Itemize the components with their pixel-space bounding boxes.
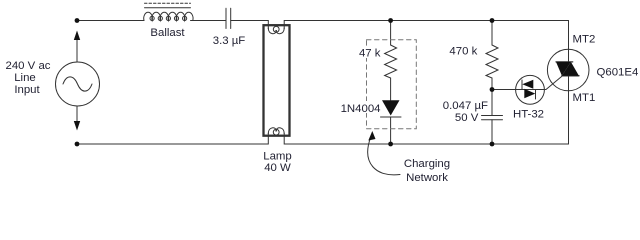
wire top rail ballast-to-capacitor	[191, 20, 227, 22]
wire triac MT1 lead to bottom rail	[568, 76, 570, 144]
svg-text:Ballast: Ballast	[150, 27, 185, 39]
svg-text:MT2: MT2	[573, 34, 596, 46]
node dot top rail at source	[75, 18, 80, 23]
svg-text:0.047 µF: 0.047 µF	[443, 100, 488, 112]
svg-text:MT1: MT1	[573, 92, 596, 104]
diac HT-32 circle	[516, 75, 545, 104]
ac source sine wave	[63, 77, 92, 91]
wire bottom rail left segment	[77, 136, 268, 144]
wire junction down to capacitor C2	[491, 90, 493, 116]
wire resistor R2 to junction	[491, 78, 493, 90]
resistor R1 47k branch top lead	[390, 21, 392, 46]
wire source top lead with up arrow	[76, 33, 78, 62]
svg-text:Charging: Charging	[404, 158, 450, 170]
charging network pointer arrow curve	[368, 137, 400, 175]
diac top triangle pointing left	[522, 80, 533, 89]
resistor R2 470k top lead	[491, 21, 493, 46]
inductor Ballast core line dashed	[145, 2, 191, 4]
lamp fluorescent tube body	[264, 25, 290, 136]
diac left bar	[521, 80, 523, 89]
lamp top filament curl	[268, 28, 276, 34]
diac bottom triangle pointing right	[524, 89, 535, 99]
inductor Ballast core line solid	[145, 7, 191, 9]
triac right triangle pointing up	[562, 62, 579, 76]
svg-text:470 k: 470 k	[449, 46, 477, 58]
capacitor C1 3.3uF right plate	[230, 8, 232, 28]
triac left triangle pointing down	[556, 62, 571, 76]
dashed box charging network	[367, 40, 417, 129]
wire lamp top-right pin to triac corner	[284, 21, 568, 26]
lamp bottom filament curl	[268, 128, 276, 134]
svg-text:40 W: 40 W	[264, 162, 291, 174]
node dot top rail at 470k	[490, 18, 495, 23]
svg-text:Q601E4: Q601E4	[597, 66, 639, 78]
triac bottom bar MT1	[562, 75, 579, 77]
svg-text:1N4004: 1N4004	[341, 103, 381, 115]
node dot junction 470k diac	[490, 87, 495, 92]
svg-text:240 V ac: 240 V ac	[6, 60, 51, 72]
inductor loop 4	[174, 16, 178, 20]
svg-text:HT-32: HT-32	[513, 108, 544, 120]
svg-text:Input: Input	[14, 84, 40, 96]
svg-text:47 k: 47 k	[359, 48, 381, 60]
capacitor C2 0.047uF bottom plate	[482, 119, 503, 121]
wire through diac	[516, 89, 545, 91]
node dot bottom rail at source	[75, 142, 80, 147]
wire bottom rail right segment	[284, 136, 568, 144]
label 1N4004 with white backing	[342, 101, 382, 113]
wire top rail left segment	[77, 20, 144, 22]
label 47 k with white backing	[357, 47, 382, 59]
triac Q1 circle	[547, 49, 589, 91]
inductor loop 1	[150, 16, 154, 20]
inductor loop 5	[183, 16, 187, 20]
lamp bottom filament left wire	[267, 133, 269, 136]
diode D1 1N4004 triangle	[382, 100, 400, 115]
wire diode to bottom rail	[390, 117, 392, 144]
svg-text:50 V: 50 V	[455, 112, 479, 124]
diode D1 1N4004 cathode bar	[381, 116, 402, 118]
lamp bottom filament right wire	[283, 133, 285, 136]
svg-text:Network: Network	[406, 172, 448, 184]
wire junction to diac HT-32	[492, 89, 516, 91]
inductor loop 3	[166, 16, 170, 20]
resistor R1 47k zigzag	[385, 45, 397, 78]
wire source bottom lead with down arrow	[76, 106, 78, 128]
svg-text:Lamp: Lamp	[263, 151, 292, 163]
arrowhead up at source top	[74, 31, 80, 41]
triac top bar MT2	[556, 61, 573, 63]
capacitor C1 3.3uF left plate	[225, 8, 227, 28]
ac source V1 circle	[56, 62, 100, 106]
lamp top filament right wire	[283, 25, 285, 29]
node dot top rail at 47k	[388, 18, 393, 23]
wire capacitor-to-lamp with drop into lamp top-left pin	[231, 21, 269, 26]
inductor loop 2	[158, 16, 162, 20]
node dot bottom rail at capacitor C2	[490, 142, 495, 147]
arrowhead charging network pointer	[368, 131, 375, 141]
wire triac MT2 lead from top rail	[568, 21, 570, 63]
capacitor C2 0.047uF top plate	[482, 115, 503, 117]
svg-text:3.3 µF: 3.3 µF	[213, 35, 246, 47]
lamp top filament left wire	[267, 25, 269, 29]
wire gate from diac to triac	[544, 76, 562, 90]
wire capacitor C2 to bottom rail	[491, 120, 493, 144]
arrowhead down at source bottom	[74, 121, 80, 131]
wire resistor to diode	[390, 78, 392, 100]
node dot bottom rail at diode	[388, 142, 393, 147]
resistor R2 470k zigzag	[486, 45, 498, 78]
inductor Ballast coil	[144, 12, 193, 20]
svg-text:Line: Line	[14, 72, 36, 84]
diac right bar	[535, 90, 537, 99]
